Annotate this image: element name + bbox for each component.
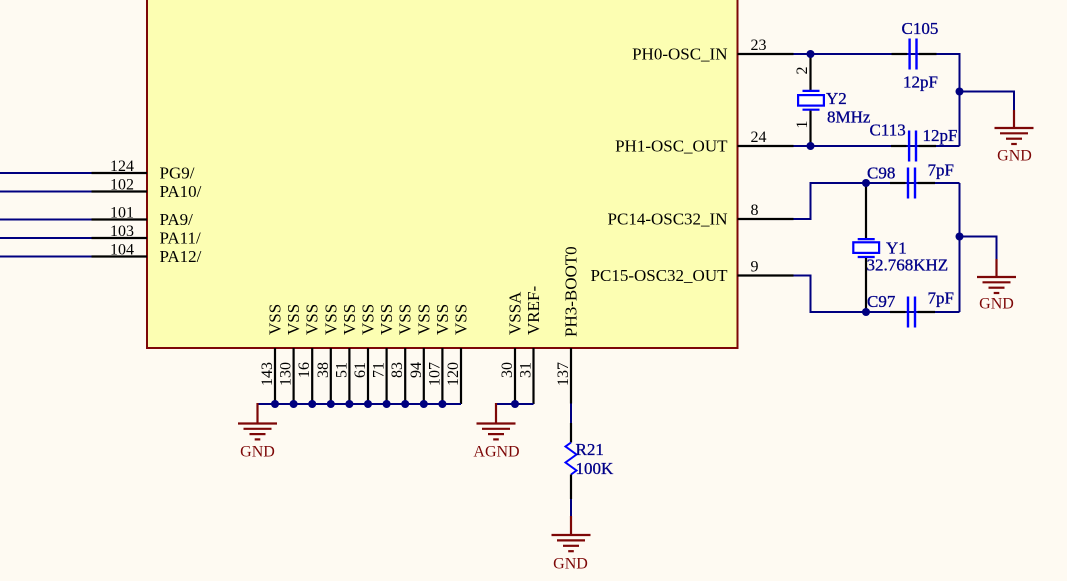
ground GND 32k right — [977, 259, 1016, 313]
svg-text:VSS: VSS — [284, 304, 303, 335]
svg-text:9: 9 — [751, 259, 759, 276]
svg-text:100K: 100K — [576, 459, 615, 478]
svg-text:124: 124 — [110, 158, 134, 175]
ground AGND — [473, 403, 519, 461]
svg-text:AGND: AGND — [473, 444, 519, 461]
svg-text:143: 143 — [259, 362, 276, 386]
junction pin24/Y2 — [807, 142, 815, 150]
svg-text:7pF: 7pF — [928, 161, 954, 180]
ground GND bottom — [552, 516, 591, 573]
svg-text:VSS: VSS — [340, 304, 359, 335]
wire R21 to GND — [570, 499, 572, 517]
svg-text:C98: C98 — [867, 164, 895, 183]
svg-text:PA12/: PA12/ — [160, 247, 202, 266]
svg-text:120: 120 — [445, 362, 462, 386]
svg-text:101: 101 — [110, 205, 134, 222]
wire pin104 net — [0, 256, 92, 258]
svg-text:51: 51 — [333, 362, 350, 378]
svg-text:94: 94 — [408, 362, 425, 378]
pin 101 PA9 — [92, 205, 194, 230]
svg-text:83: 83 — [389, 362, 406, 378]
svg-text:16: 16 — [296, 362, 313, 378]
wire right bus 32k — [959, 183, 961, 312]
svg-text:12pF: 12pF — [903, 73, 938, 92]
pin 103 PA11 — [92, 223, 202, 248]
resistor R21 — [566, 423, 615, 499]
svg-text:VSSA: VSSA — [506, 291, 525, 335]
junction pin23/Y2 — [807, 50, 815, 58]
svg-text:VSS: VSS — [433, 304, 452, 335]
ground GND left — [238, 403, 277, 461]
wire pin24 to C113 — [794, 145, 960, 147]
junction VSSA — [511, 400, 519, 408]
svg-text:VSS: VSS — [396, 304, 415, 335]
svg-text:C113: C113 — [870, 121, 906, 140]
junction C97/Y1 — [862, 308, 870, 316]
svg-text:VSS: VSS — [377, 304, 396, 335]
wire GND tap 32k — [960, 237, 997, 261]
svg-text:PH3-BOOT0: PH3-BOOT0 — [562, 246, 581, 337]
svg-text:C105: C105 — [902, 19, 939, 38]
IC U? body — [147, 0, 738, 348]
pin 8 PC14-OSC32_IN — [608, 202, 794, 229]
pin 24 PH1-OSC_OUT — [615, 129, 793, 156]
junction 32k gnd — [956, 233, 964, 241]
svg-text:104: 104 — [110, 242, 134, 259]
svg-text:130: 130 — [278, 362, 295, 386]
svg-text:PA9/: PA9/ — [160, 210, 194, 229]
wire pin101 net — [0, 219, 92, 221]
svg-text:107: 107 — [426, 362, 443, 386]
pin 104 PA12 — [92, 242, 202, 267]
svg-text:1: 1 — [794, 121, 811, 129]
wire pin102 net — [0, 191, 92, 193]
svg-text:23: 23 — [751, 37, 767, 54]
ground GND 8MHz right — [995, 110, 1034, 165]
svg-text:PG9/: PG9/ — [160, 164, 195, 183]
svg-text:GND: GND — [979, 296, 1014, 313]
svg-text:PH1-OSC_OUT: PH1-OSC_OUT — [615, 137, 728, 156]
svg-text:137: 137 — [555, 362, 572, 386]
svg-text:24: 24 — [751, 129, 767, 146]
svg-text:GND: GND — [553, 556, 588, 573]
svg-text:2: 2 — [794, 67, 811, 75]
svg-text:102: 102 — [110, 177, 134, 194]
pin 9 PC15-OSC32_OUT — [591, 259, 794, 286]
svg-text:32.768KHZ: 32.768KHZ — [867, 256, 949, 275]
svg-text:VSS: VSS — [414, 304, 433, 335]
svg-text:61: 61 — [352, 362, 369, 378]
svg-text:8: 8 — [751, 202, 759, 219]
capacitor C97 — [867, 289, 954, 328]
crystal Y2 — [794, 54, 871, 146]
wire pin124 net — [0, 172, 92, 174]
svg-text:PA10/: PA10/ — [160, 182, 202, 201]
svg-text:7pF: 7pF — [928, 289, 954, 308]
svg-text:31: 31 — [518, 362, 535, 378]
svg-text:38: 38 — [315, 362, 332, 378]
pin 102 PA10 — [92, 177, 202, 202]
svg-text:12pF: 12pF — [923, 126, 958, 145]
svg-text:30: 30 — [499, 362, 516, 378]
wire pin9 down to C97 row — [794, 276, 960, 313]
svg-text:GND: GND — [997, 148, 1032, 165]
svg-text:VSS: VSS — [452, 304, 471, 335]
wire GND tap 8MHz — [960, 92, 1015, 112]
junction dots VSS bus — [271, 400, 446, 408]
pin 137 PH3-BOOT0 — [555, 246, 581, 403]
capacitor C113 — [870, 121, 958, 162]
svg-text:PH0-OSC_IN: PH0-OSC_IN — [632, 45, 727, 64]
svg-text:R21: R21 — [576, 440, 604, 459]
wire PH3 to R21 — [570, 404, 572, 424]
wire pin23 to C105 and corner — [794, 54, 960, 146]
VSS pin numbers — [259, 362, 462, 386]
svg-text:PA11/: PA11/ — [160, 229, 202, 248]
svg-text:GND: GND — [240, 444, 275, 461]
wire pin8 up to C98 row — [794, 183, 960, 219]
wire pin103 net — [0, 237, 92, 239]
svg-text:VSS: VSS — [359, 304, 378, 335]
svg-text:VSS: VSS — [303, 304, 322, 335]
junction C98/Y1 — [862, 179, 870, 187]
svg-text:VSS: VSS — [266, 304, 285, 335]
pin 124 PG9 — [92, 158, 195, 183]
wire AGND bus — [496, 403, 534, 405]
junction 8MHz gnd — [956, 88, 964, 96]
svg-text:C97: C97 — [867, 292, 896, 311]
crystal Y1 — [853, 183, 948, 312]
pin 23 PH0-OSC_IN — [632, 37, 793, 64]
svg-text:PC14-OSC32_IN: PC14-OSC32_IN — [608, 210, 728, 229]
VSS pins bottom — [275, 348, 461, 404]
VSS pin names — [266, 304, 471, 335]
capacitor C98 — [867, 161, 954, 199]
pin 31 VREF- — [518, 286, 544, 404]
wire VSS ground bus — [258, 403, 462, 405]
pin 30 VSSA — [499, 291, 525, 404]
svg-text:PC15-OSC32_OUT: PC15-OSC32_OUT — [591, 266, 729, 285]
svg-text:8MHz: 8MHz — [827, 108, 871, 127]
svg-text:103: 103 — [110, 223, 134, 240]
svg-text:VSS: VSS — [321, 304, 340, 335]
svg-text:Y2: Y2 — [826, 89, 847, 108]
svg-text:71: 71 — [371, 362, 388, 378]
svg-text:VREF-: VREF- — [524, 286, 543, 335]
capacitor C105 — [892, 19, 939, 92]
